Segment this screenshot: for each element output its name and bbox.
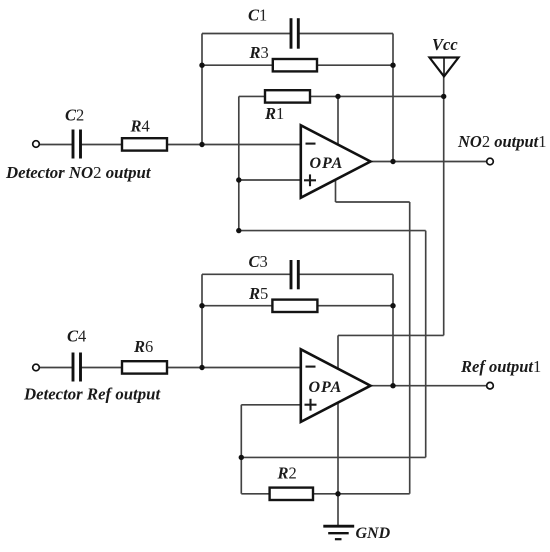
svg-text:C1: C1: [248, 6, 267, 25]
svg-text:OPA: OPA: [310, 155, 344, 172]
svg-text:R6: R6: [133, 337, 153, 356]
svg-text:GND: GND: [356, 525, 391, 542]
svg-text:NO2 output1: NO2 output1: [457, 132, 547, 151]
svg-text:Ref output1: Ref output1: [460, 357, 541, 376]
svg-text:OPA: OPA: [309, 379, 343, 396]
svg-text:R2: R2: [277, 464, 297, 483]
svg-text:Vcc: Vcc: [432, 35, 458, 54]
svg-text:Detector NO2 output: Detector NO2 output: [5, 163, 152, 182]
svg-text:Detector Ref output: Detector Ref output: [23, 384, 161, 403]
svg-text:R1: R1: [264, 104, 284, 123]
svg-text:R4: R4: [130, 117, 150, 136]
svg-text:R5: R5: [248, 284, 268, 303]
svg-text:C4: C4: [67, 327, 86, 346]
svg-text:C2: C2: [65, 106, 84, 125]
svg-text:R3: R3: [249, 43, 269, 62]
svg-text:C3: C3: [249, 252, 268, 271]
